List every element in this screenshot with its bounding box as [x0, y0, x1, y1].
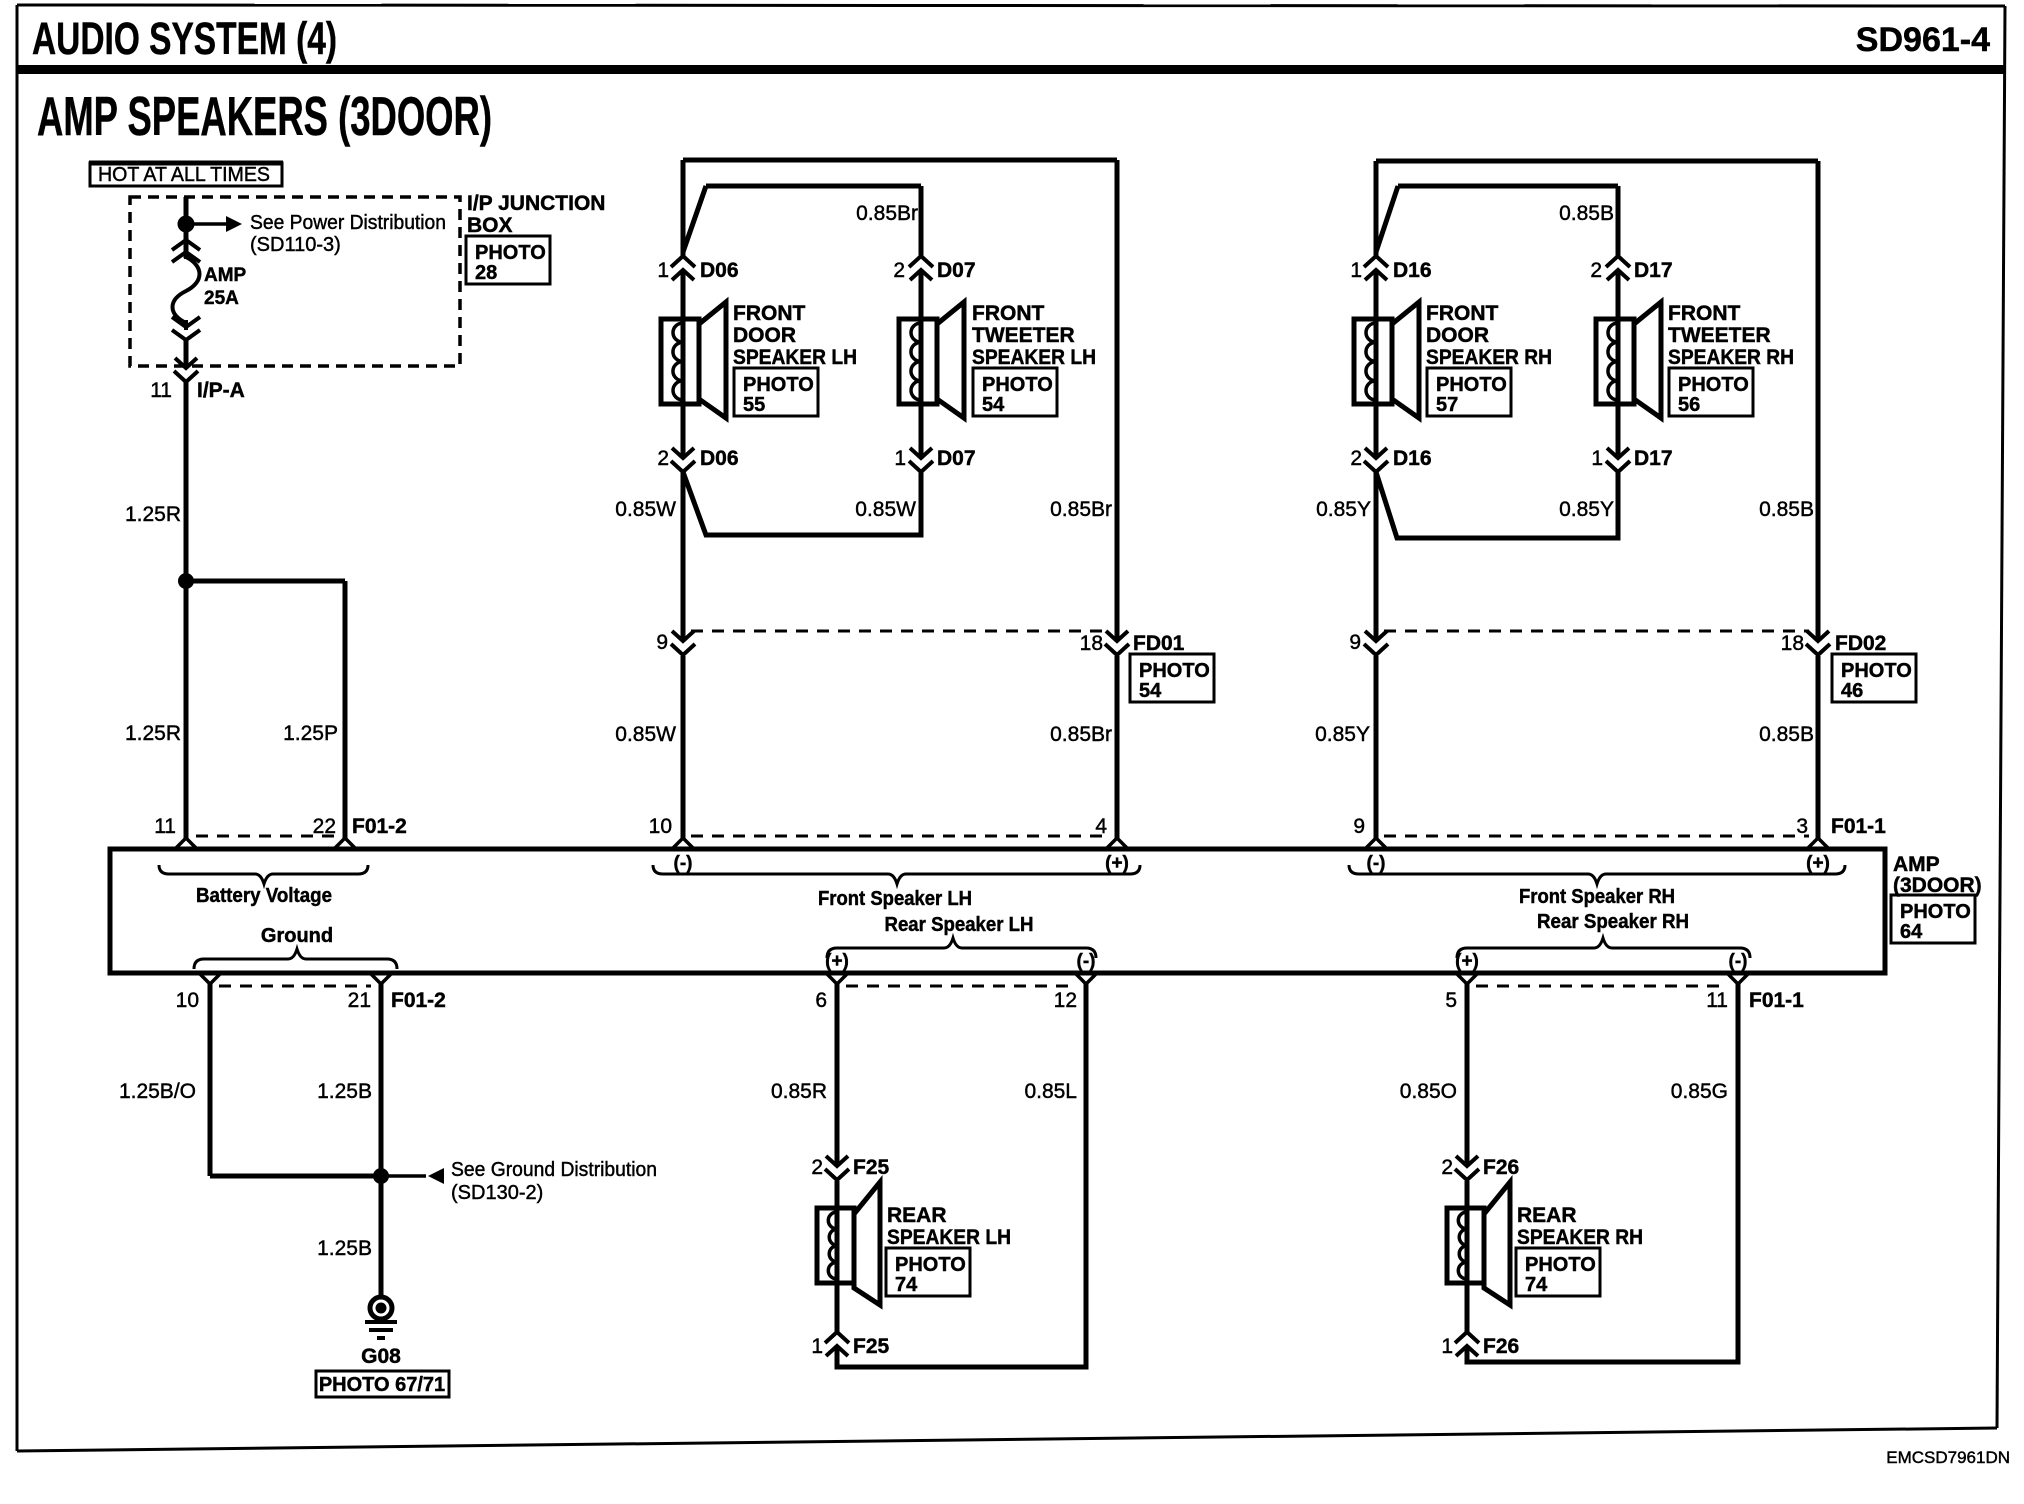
svg-text:18: 18	[1080, 632, 1103, 655]
svg-text:I/P JUNCTION: I/P JUNCTION	[467, 192, 605, 215]
svg-text:(SD110-3): (SD110-3)	[250, 234, 341, 256]
svg-text:1: 1	[657, 259, 669, 282]
svg-text:55: 55	[743, 394, 765, 416]
svg-text:11: 11	[154, 815, 176, 838]
svg-text:I/P-A: I/P-A	[197, 379, 245, 402]
svg-text:74: 74	[895, 1274, 918, 1296]
svg-text:PHOTO: PHOTO	[475, 242, 546, 264]
svg-text:REAR: REAR	[887, 1204, 947, 1227]
svg-text:D16: D16	[1393, 259, 1432, 282]
svg-text:F26: F26	[1483, 1335, 1519, 1358]
svg-text:SPEAKER LH: SPEAKER LH	[733, 346, 857, 369]
svg-text:TWEETER: TWEETER	[972, 324, 1075, 347]
svg-text:FRONT: FRONT	[1668, 302, 1740, 325]
svg-text:2: 2	[1590, 259, 1602, 282]
svg-text:(-): (-)	[1367, 853, 1386, 874]
svg-text:1.25R: 1.25R	[125, 722, 181, 745]
svg-text:0.85Br: 0.85Br	[856, 202, 918, 225]
svg-text:1.25R: 1.25R	[125, 503, 181, 526]
svg-text:AMP SPEAKERS (3DOOR): AMP SPEAKERS (3DOOR)	[37, 85, 492, 147]
svg-text:0.85Br: 0.85Br	[1050, 498, 1112, 521]
svg-text:57: 57	[1436, 394, 1458, 416]
svg-text:(+): (+)	[825, 951, 849, 972]
svg-text:0.85R: 0.85R	[771, 1080, 827, 1103]
svg-text:0.85W: 0.85W	[615, 723, 676, 746]
svg-text:F25: F25	[853, 1156, 890, 1179]
svg-text:0.85O: 0.85O	[1400, 1080, 1457, 1103]
svg-text:2: 2	[1441, 1156, 1453, 1179]
svg-text:Rear Speaker LH: Rear Speaker LH	[885, 914, 1034, 936]
svg-text:Front Speaker RH: Front Speaker RH	[1519, 886, 1675, 908]
svg-text:25A: 25A	[204, 288, 239, 309]
svg-text:28: 28	[475, 262, 497, 284]
svg-text:PHOTO: PHOTO	[1436, 374, 1507, 396]
svg-text:AMP: AMP	[1893, 853, 1940, 876]
svg-text:Ground: Ground	[261, 925, 333, 947]
svg-text:DOOR: DOOR	[733, 324, 796, 347]
svg-text:D06: D06	[700, 259, 739, 282]
svg-text:EMCSD7961DN: EMCSD7961DN	[1886, 1448, 2010, 1467]
svg-text:BOX: BOX	[467, 214, 513, 237]
svg-text:Rear Speaker RH: Rear Speaker RH	[1537, 911, 1689, 933]
svg-text:SPEAKER RH: SPEAKER RH	[1517, 1226, 1643, 1249]
svg-text:0.85Br: 0.85Br	[1050, 723, 1112, 746]
svg-text:64: 64	[1900, 921, 1923, 943]
svg-text:HOT AT ALL TIMES: HOT AT ALL TIMES	[98, 164, 270, 186]
svg-text:2: 2	[811, 1156, 823, 1179]
svg-text:PHOTO: PHOTO	[1139, 660, 1210, 682]
svg-text:18: 18	[1781, 632, 1804, 655]
svg-text:F01-1: F01-1	[1749, 989, 1804, 1012]
svg-text:F26: F26	[1483, 1156, 1519, 1179]
svg-text:3: 3	[1796, 815, 1808, 838]
svg-text:SPEAKER RH: SPEAKER RH	[1668, 346, 1794, 369]
svg-text:SPEAKER LH: SPEAKER LH	[972, 346, 1096, 369]
svg-text:F01-2: F01-2	[391, 989, 446, 1012]
svg-text:PHOTO 67/71: PHOTO 67/71	[319, 1374, 445, 1396]
svg-text:4: 4	[1095, 815, 1107, 838]
svg-text:6: 6	[815, 989, 827, 1012]
svg-text:PHOTO: PHOTO	[895, 1254, 966, 1276]
svg-text:1: 1	[1591, 447, 1603, 470]
svg-text:SPEAKER LH: SPEAKER LH	[887, 1226, 1011, 1249]
svg-text:2: 2	[1350, 447, 1362, 470]
svg-text:9: 9	[1349, 631, 1361, 654]
svg-text:1.25B: 1.25B	[317, 1080, 372, 1103]
svg-text:(-): (-)	[674, 853, 693, 874]
svg-text:PHOTO: PHOTO	[982, 374, 1053, 396]
svg-text:D07: D07	[937, 447, 976, 470]
svg-text:1.25P: 1.25P	[283, 722, 338, 745]
svg-text:2: 2	[893, 259, 905, 282]
svg-text:PHOTO: PHOTO	[1900, 901, 1971, 923]
svg-text:SD961-4: SD961-4	[1856, 21, 1990, 59]
svg-text:FRONT: FRONT	[733, 302, 805, 325]
svg-text:F01-2: F01-2	[352, 815, 407, 838]
svg-text:D16: D16	[1393, 447, 1432, 470]
svg-text:0.85W: 0.85W	[855, 498, 916, 521]
svg-text:(SD130-2): (SD130-2)	[451, 1182, 543, 1204]
svg-text:54: 54	[982, 394, 1005, 416]
svg-text:5: 5	[1445, 989, 1457, 1012]
svg-text:9: 9	[656, 631, 668, 654]
svg-text:1: 1	[811, 1335, 823, 1358]
svg-text:74: 74	[1525, 1274, 1548, 1296]
svg-text:PHOTO: PHOTO	[1841, 660, 1912, 682]
svg-text:PHOTO: PHOTO	[743, 374, 814, 396]
svg-text:AUDIO SYSTEM (4): AUDIO SYSTEM (4)	[32, 13, 337, 64]
svg-text:FRONT: FRONT	[1426, 302, 1498, 325]
svg-text:D07: D07	[937, 259, 976, 282]
svg-text:56: 56	[1678, 394, 1700, 416]
svg-text:DOOR: DOOR	[1426, 324, 1489, 347]
svg-text:Battery Voltage: Battery Voltage	[196, 885, 332, 907]
svg-text:D06: D06	[700, 447, 739, 470]
svg-text:F25: F25	[853, 1335, 890, 1358]
svg-text:1: 1	[894, 447, 906, 470]
svg-text:FD01: FD01	[1133, 632, 1185, 655]
svg-text:0.85Y: 0.85Y	[1559, 498, 1614, 521]
svg-text:11: 11	[150, 379, 172, 402]
svg-text:10: 10	[649, 815, 672, 838]
svg-text:10: 10	[176, 989, 199, 1012]
svg-text:PHOTO: PHOTO	[1678, 374, 1749, 396]
svg-text:SPEAKER RH: SPEAKER RH	[1426, 346, 1552, 369]
svg-text:12: 12	[1054, 989, 1077, 1012]
svg-text:2: 2	[657, 447, 669, 470]
svg-text:0.85Y: 0.85Y	[1316, 498, 1371, 521]
svg-text:0.85B: 0.85B	[1759, 498, 1814, 521]
svg-text:1: 1	[1350, 259, 1362, 282]
svg-text:22: 22	[313, 815, 336, 838]
svg-text:1.25B: 1.25B	[317, 1237, 372, 1260]
svg-text:PHOTO: PHOTO	[1525, 1254, 1596, 1276]
svg-text:0.85B: 0.85B	[1759, 723, 1814, 746]
svg-text:54: 54	[1139, 680, 1162, 702]
svg-text:0.85Y: 0.85Y	[1315, 723, 1370, 746]
svg-text:D17: D17	[1634, 259, 1673, 282]
svg-text:See Ground Distribution: See Ground Distribution	[451, 1159, 657, 1181]
svg-text:9: 9	[1353, 815, 1365, 838]
svg-text:0.85W: 0.85W	[615, 498, 676, 521]
svg-text:0.85L: 0.85L	[1024, 1080, 1077, 1103]
svg-text:FRONT: FRONT	[972, 302, 1044, 325]
svg-text:D17: D17	[1634, 447, 1673, 470]
svg-text:21: 21	[348, 989, 371, 1012]
svg-text:(+): (+)	[1455, 951, 1479, 972]
svg-text:1.25B/O: 1.25B/O	[119, 1080, 196, 1103]
svg-text:F01-1: F01-1	[1831, 815, 1886, 838]
svg-text:(+): (+)	[1105, 853, 1129, 874]
svg-text:See Power Distribution: See Power Distribution	[250, 212, 446, 234]
svg-text:Front Speaker LH: Front Speaker LH	[818, 888, 972, 910]
svg-text:(-): (-)	[1729, 951, 1748, 972]
svg-text:0.85G: 0.85G	[1671, 1080, 1728, 1103]
svg-text:0.85B: 0.85B	[1559, 202, 1614, 225]
svg-text:AMP: AMP	[204, 265, 247, 286]
svg-text:1: 1	[1441, 1335, 1453, 1358]
svg-text:46: 46	[1841, 680, 1863, 702]
svg-text:TWEETER: TWEETER	[1668, 324, 1771, 347]
svg-text:REAR: REAR	[1517, 1204, 1577, 1227]
svg-text:G08: G08	[361, 1345, 401, 1368]
svg-text:11: 11	[1706, 989, 1728, 1012]
svg-text:(-): (-)	[1077, 951, 1096, 972]
svg-text:FD02: FD02	[1835, 632, 1886, 655]
svg-text:(+): (+)	[1806, 853, 1830, 874]
